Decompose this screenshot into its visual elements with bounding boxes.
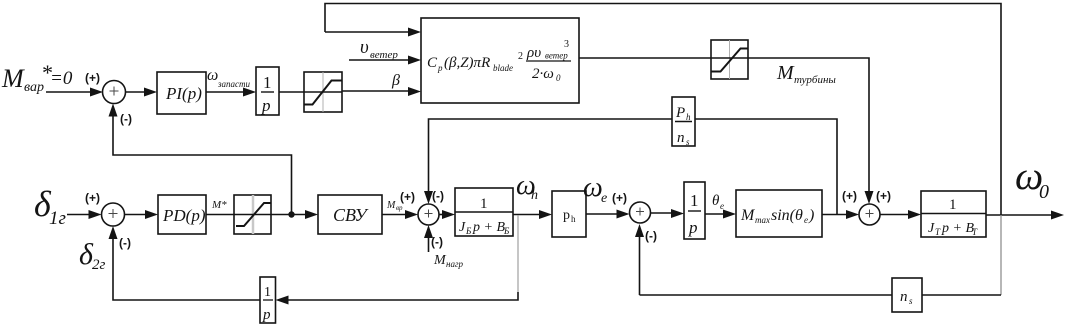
svg-text:запасти: запасти [217, 79, 251, 89]
wire ns feedback line right [922, 294, 1001, 296]
block Mmax sin(theta_e) [736, 190, 822, 237]
svg-text:(-): (-) [645, 229, 657, 243]
wire to bottom integrator [288, 299, 508, 301]
svg-text:(+): (+) [612, 191, 627, 205]
svg-text:1г: 1г [49, 208, 66, 229]
svg-text:ветер: ветер [545, 51, 568, 61]
svg-text:ω: ω [207, 67, 218, 84]
wire omega_h branch down [517, 215, 519, 292]
svg-text:2·ω: 2·ω [532, 66, 554, 82]
svg-text:s: s [909, 296, 913, 306]
svg-text:h: h [686, 112, 691, 122]
svg-text:M*: M* [211, 199, 227, 211]
svg-text:M: M [740, 207, 756, 224]
svg-text:1: 1 [480, 196, 488, 212]
svg-text:n: n [677, 130, 685, 146]
svg-text:=0: =0 [50, 68, 73, 89]
block ns [892, 278, 922, 312]
svg-text:1: 1 [264, 285, 271, 300]
svg-text:(-): (-) [120, 112, 132, 126]
wire JB to ph [513, 214, 540, 216]
wire PD to limiter3, node M* [206, 214, 234, 216]
node delta_2g label [79, 238, 106, 273]
svg-text:M: M [386, 200, 396, 211]
summing junction Sdelta [102, 203, 125, 226]
svg-text:(+): (+) [85, 191, 100, 205]
svg-text:β: β [391, 72, 400, 89]
block integrator 1/p (row1) [256, 67, 279, 115]
svg-text:υ: υ [360, 37, 369, 58]
svg-text:p + B: p + B [472, 220, 505, 235]
wire bottom integrator to Sdelta [113, 238, 260, 300]
svg-text:(+): (+) [85, 71, 100, 85]
svg-text:M: M [776, 62, 795, 84]
wire M_turbiny to S4 [748, 58, 869, 192]
svg-text:Б: Б [503, 226, 510, 236]
svg-text:2г: 2г [92, 257, 106, 273]
svg-text:PD(p): PD(p) [162, 206, 206, 225]
svg-text:p: p [261, 96, 271, 115]
wire omega0 down to ns feedback [1000, 215, 1002, 295]
node Mvar input label [1, 60, 73, 95]
wire omega0 feedback: top loop [325, 4, 1001, 215]
svg-text:(β,Z)πR: (β,Z)πR [444, 55, 490, 71]
limiter (saturation block, pitch) [304, 72, 342, 112]
summing junction S1 [103, 81, 126, 104]
svg-text:турбины: турбины [794, 74, 836, 86]
summing junction S3 [630, 202, 651, 223]
block Cp turbine power [421, 18, 579, 103]
svg-text:J: J [928, 221, 935, 236]
wire branch from Mmax output up to Ph/ns [695, 119, 837, 215]
svg-text:C: C [427, 55, 438, 71]
svg-text:p + B: p + B [941, 221, 974, 236]
block SVU [318, 195, 382, 234]
wire M_nagr input to S2 [428, 237, 430, 252]
svg-text:1: 1 [690, 191, 699, 210]
svg-text:M: M [1, 64, 25, 93]
svg-text:M: M [433, 253, 447, 268]
wire beta: limiter to Cp block [342, 90, 409, 92]
svg-text:0: 0 [1039, 181, 1049, 203]
svg-text:e: e [601, 191, 607, 206]
wire ph to S3, node omega_e [586, 213, 617, 215]
svg-text:(+): (+) [400, 190, 415, 204]
svg-text:ω: ω [583, 172, 603, 203]
svg-text:): ) [808, 207, 814, 224]
wire Ph/ns to S2 top input [429, 119, 673, 192]
svg-text:h: h [571, 214, 576, 224]
wire SVU to S2, node M_vr [382, 214, 406, 216]
svg-text:1: 1 [263, 73, 272, 92]
svg-text:n: n [900, 289, 908, 305]
svg-text:(-): (-) [431, 235, 443, 249]
wire delta1 to Sdelta [67, 214, 91, 216]
block PI(p) [157, 72, 206, 114]
svg-text:1: 1 [949, 197, 957, 213]
wire v_veter input [349, 59, 409, 61]
limiter3 (saturation block) [234, 195, 271, 234]
svg-text:вр: вр [396, 204, 403, 212]
svg-text:h: h [531, 188, 538, 203]
wire Sdelta to PD [125, 214, 147, 216]
block PD(p) [158, 195, 206, 234]
node delta_1g label [34, 184, 66, 229]
svg-text:ветер: ветер [370, 49, 398, 61]
wire S1 to PI [126, 91, 147, 93]
svg-text:нагр: нагр [446, 259, 463, 269]
svg-text:3: 3 [564, 39, 569, 50]
wire Mmax to S4 [822, 214, 847, 216]
wire 1/p to Mmax block, node theta_e [705, 213, 724, 215]
svg-text:s: s [686, 137, 690, 147]
svg-text:2: 2 [518, 51, 523, 62]
block Ph/ns [672, 97, 695, 146]
summing junction S4 [859, 204, 880, 225]
svg-text:sin(θ: sin(θ [771, 207, 803, 224]
svg-text:ρυ: ρυ [526, 45, 541, 61]
block ph [552, 191, 586, 237]
svg-text:θ: θ [712, 193, 720, 209]
wire JT output omega0 [986, 214, 1052, 216]
wire Cp to limiter2 [579, 57, 711, 59]
wire ns feedback up to S3 [639, 236, 641, 295]
svg-text:(-): (-) [119, 236, 131, 250]
wire S2 to JB block [439, 214, 443, 216]
wire limiter3 to SVU with junction node [271, 214, 306, 216]
block integrator 1/p (row2) [684, 182, 705, 239]
wire ns feedback line left [640, 294, 893, 296]
svg-text:e: e [804, 215, 808, 225]
wire PI to integrator, node omega_zapasti [206, 91, 244, 93]
wire 1/p to limiter [279, 91, 304, 93]
svg-text:p: p [688, 218, 698, 237]
svg-text:p: p [437, 63, 443, 73]
wire Mvar input to S1 [46, 91, 92, 93]
svg-text:(+): (+) [876, 189, 891, 203]
svg-text:(-): (-) [432, 189, 444, 203]
svg-text:P: P [675, 105, 685, 121]
svg-text:max: max [755, 215, 770, 225]
node omega_h label [516, 170, 538, 203]
limiter M_turbiny (saturation block) [711, 40, 748, 79]
block integrator 1/p (bottom) [260, 277, 276, 323]
svg-text:blade: blade [493, 63, 513, 73]
wire S3 to integrator [651, 212, 673, 214]
svg-text:PI(p): PI(p) [165, 84, 202, 103]
svg-text:e: e [720, 201, 724, 211]
svg-text:Б: Б [465, 226, 472, 236]
svg-text:0: 0 [556, 73, 561, 83]
block 1/(JT p + BT) [921, 191, 986, 237]
svg-text:p: p [563, 208, 570, 223]
block 1/(JB p + BB) [455, 188, 513, 236]
wire junction feedback up to S1 [113, 116, 292, 215]
svg-text:СВУ: СВУ [333, 205, 368, 225]
summing junction S2 [418, 204, 439, 225]
svg-text:(+): (+) [842, 189, 857, 203]
svg-text:J: J [459, 220, 466, 235]
wire S4 to JT block [880, 214, 909, 216]
svg-text:p: p [262, 307, 271, 323]
